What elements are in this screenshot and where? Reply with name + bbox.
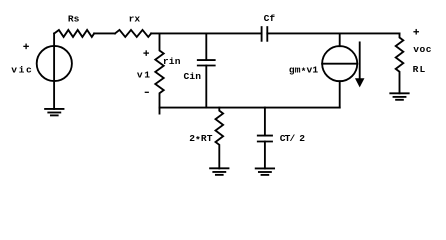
svg-text:Cf: Cf <box>264 13 276 24</box>
svg-text:voc: voc <box>413 44 432 55</box>
svg-text:Cin: Cin <box>184 71 202 82</box>
svg-text:RL: RL <box>413 64 427 75</box>
svg-text:CT/ 2: CT/ 2 <box>280 133 305 144</box>
svg-text:v1: v1 <box>137 70 152 81</box>
svg-text:Rs: Rs <box>68 13 80 24</box>
svg-text:rin: rin <box>163 56 181 67</box>
svg-text:2*RT: 2*RT <box>189 133 213 146</box>
svg-text:vic: vic <box>11 65 33 76</box>
svg-text:rx: rx <box>129 13 141 24</box>
svg-text:gm*v1: gm*v1 <box>289 65 318 78</box>
